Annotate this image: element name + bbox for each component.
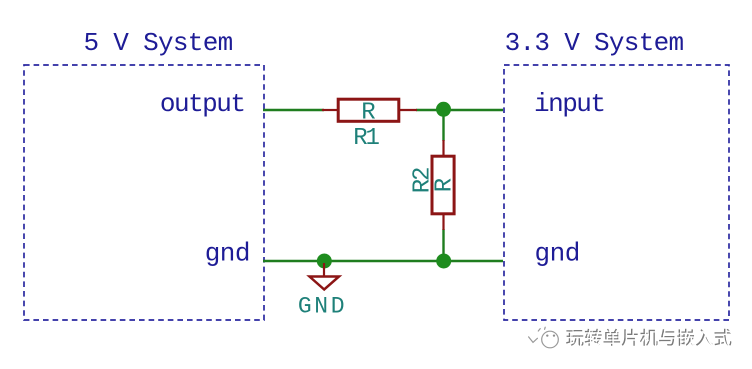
wire: gnd rail [263, 260, 503, 262]
svg-text:3.3 V System: 3.3 V System [505, 28, 684, 58]
svg-text:R1: R1 [353, 125, 379, 152]
wire: output to R1 [263, 109, 324, 111]
junction node C (gnd rail left) [317, 254, 332, 269]
svg-text:GND: GND [298, 294, 347, 320]
wire: R1 to input [416, 109, 503, 111]
ground symbol [310, 263, 340, 290]
5 V System box (dashed) [24, 65, 264, 320]
wire: R2 to gnd rail [442, 229, 444, 261]
svg-text:gnd: gnd [205, 239, 250, 269]
3.3 V System box (dashed) [504, 65, 729, 320]
junction node A (top) [436, 102, 451, 117]
svg-text:R2: R2 [410, 168, 437, 193]
svg-text:output: output [160, 89, 245, 119]
resistor R1 [322, 99, 417, 126]
watermark logo (bird) [529, 327, 559, 348]
junction node B (gnd rail right) [436, 254, 451, 269]
svg-text:5 V System: 5 V System [83, 28, 232, 58]
resistor R2 [432, 140, 459, 230]
wire: junction down to R2 [442, 110, 444, 141]
svg-text:gnd: gnd [535, 239, 580, 269]
svg-text:input: input [534, 89, 605, 119]
svg-text:R: R [361, 100, 375, 127]
